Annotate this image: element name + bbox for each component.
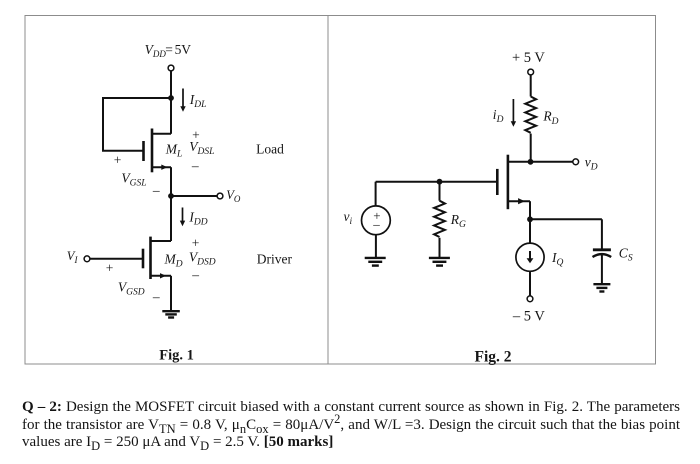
svg-text:RG: RG (450, 212, 466, 230)
svg-text:VGSL: VGSL (121, 170, 146, 188)
svg-text:vD: vD (585, 155, 598, 173)
svg-text:+: + (106, 261, 114, 276)
svg-text:iD: iD (493, 107, 504, 125)
svg-text:–: – (372, 217, 380, 232)
svg-text:–: – (152, 289, 160, 304)
svg-text:MD: MD (164, 252, 183, 270)
svg-text:VDD=5V: VDD=5V (145, 42, 192, 59)
svg-text:+ 5 V: + 5 V (512, 50, 545, 66)
svg-text:+: + (114, 152, 122, 167)
svg-text:IDL: IDL (189, 92, 207, 110)
svg-text:VI: VI (67, 249, 79, 265)
svg-text:VDSD: VDSD (189, 250, 216, 268)
svg-text:vi: vi (344, 209, 353, 227)
svg-text:+: + (192, 128, 200, 143)
svg-text:Fig. 2: Fig. 2 (475, 349, 512, 366)
svg-text:– 5 V: – 5 V (512, 309, 545, 325)
svg-text:–: – (191, 267, 199, 282)
svg-text:IQ: IQ (551, 250, 564, 268)
svg-text:IDD: IDD (188, 210, 207, 228)
svg-text:–: – (152, 182, 160, 197)
svg-text:CS: CS (619, 246, 633, 264)
svg-text:VGSD: VGSD (118, 280, 145, 298)
svg-text:+: + (192, 236, 200, 251)
svg-text:Fig. 1: Fig. 1 (159, 348, 194, 364)
svg-text:VO: VO (226, 188, 241, 204)
svg-text:–: – (191, 158, 199, 173)
svg-text:RD: RD (542, 109, 558, 127)
svg-text:Load: Load (256, 142, 284, 157)
svg-text:ML: ML (165, 142, 183, 160)
svg-text:Driver: Driver (257, 251, 293, 266)
